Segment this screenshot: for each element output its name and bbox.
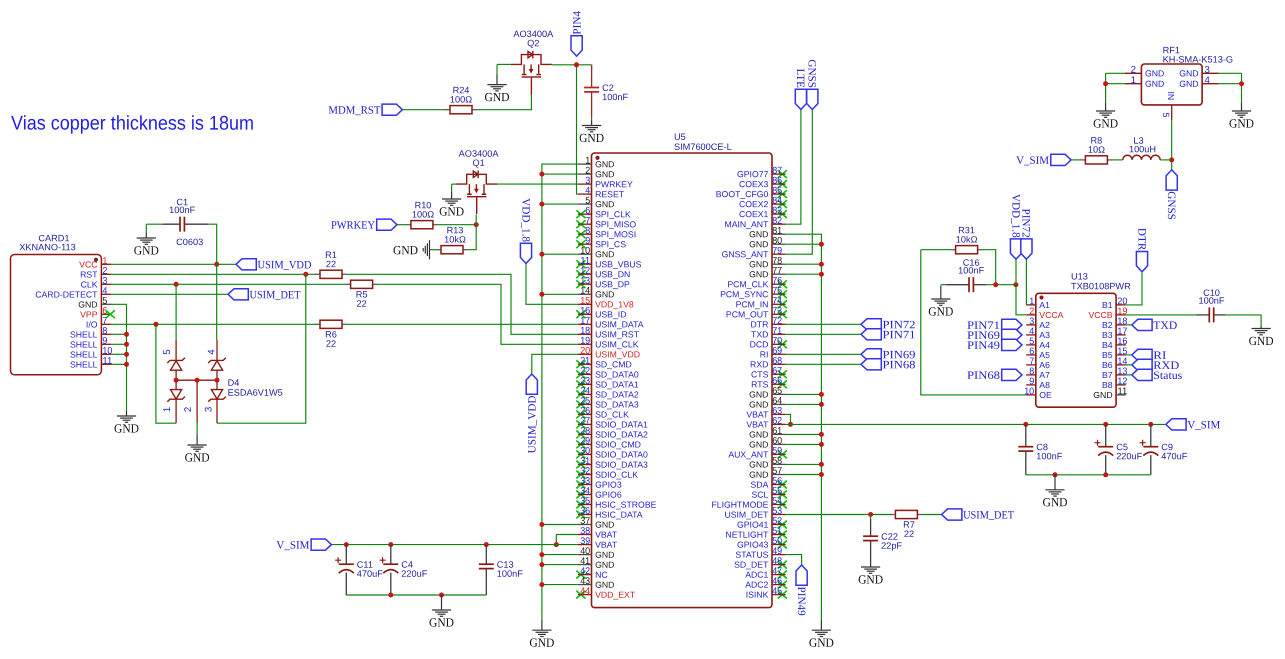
U5 pin 25 SD_DATA3 — [578, 396, 639, 410]
wire U5 pin68 RXD to PIN68 — [786, 363, 861, 365]
wire U5 pin72 DTR to PIN72 — [786, 323, 861, 325]
U5 pin 9 SPI_CS — [578, 236, 626, 250]
U5 pin 73 PCM_OUT — [726, 306, 786, 320]
U5 pin 39 VBAT — [578, 536, 618, 550]
svg-text:GND: GND — [749, 470, 768, 480]
junction right GND rail pin64 — [819, 402, 824, 407]
U13 pin 18 B2 — [1102, 316, 1127, 330]
svg-text:SCL: SCL — [751, 490, 768, 500]
svg-text:A8: A8 — [1039, 380, 1050, 390]
junction right GND rail pin65 — [819, 392, 824, 397]
resistor R13 10kohm — [436, 225, 468, 254]
svg-text:100Ω: 100Ω — [412, 209, 434, 219]
net label USIM_DET right — [942, 509, 1015, 522]
wire MDM_RST to R24 — [402, 109, 446, 111]
wire U5 pin69 RI to PIN69 — [786, 353, 861, 355]
junction GNSS / L3 — [1169, 157, 1174, 162]
svg-text:U5: U5 — [674, 132, 686, 142]
U5 pin 14 GND — [578, 286, 615, 300]
capacitor C8 100nF — [1018, 424, 1062, 474]
U13 pin 1 A1 — [1026, 296, 1050, 310]
junction D4 anode bus — [174, 378, 179, 383]
net label RI — [1132, 349, 1167, 362]
svg-text:GND: GND — [134, 243, 159, 257]
svg-text:GND: GND — [1145, 68, 1164, 78]
no-connect U5 pin 55 — [778, 491, 787, 499]
wire C1 right to VCC rail down to D4 pin4 — [208, 224, 217, 340]
U5 pin 68 RXD — [750, 356, 786, 370]
junction VBAT pins 38/39 — [554, 542, 559, 547]
wire PWRKEY to R10 — [397, 224, 406, 226]
net label PIN69 — [861, 349, 916, 362]
svg-text:GND: GND — [749, 389, 768, 399]
wire U5 pin82 MAIN_ANT to LTE label — [786, 110, 801, 225]
junction V_SIM at C4 — [388, 542, 393, 547]
junction GND rail pin2 — [539, 172, 544, 177]
U5 pin 41 GND — [578, 556, 615, 570]
net label USIM_VDD (U5) — [526, 374, 538, 453]
wire R7 to USIM_DET label — [922, 514, 942, 516]
no-connect U5 pin 84 — [778, 200, 787, 208]
ground at C16 — [931, 285, 950, 305]
svg-text:PIN72: PIN72 — [1020, 208, 1032, 237]
RF1 pin 1 GND — [1125, 75, 1165, 89]
svg-text:PWRKEY: PWRKEY — [595, 179, 633, 189]
wire cap bottom rail — [346, 594, 486, 596]
svg-text:45: 45 — [772, 586, 782, 597]
junction V_SIM at C11 — [344, 542, 349, 547]
capacitor C2 100nF — [584, 65, 628, 117]
wire I/O clamp via D4 pin1 — [156, 324, 176, 423]
ground U5 left rail — [532, 620, 551, 637]
wire B6 to RXD — [1126, 364, 1132, 366]
no-connect U5 pin 42 — [576, 571, 585, 579]
wire RF1 IN down to GNSS node — [1171, 120, 1173, 170]
svg-text:GND: GND — [484, 90, 509, 104]
wire down to C22 — [870, 515, 872, 520]
U5 pin 34 GPIO6 — [578, 486, 622, 500]
svg-text:PIN68: PIN68 — [967, 370, 1000, 382]
U5 pin 63 VBAT — [746, 406, 785, 420]
junction GND rail pin10 — [539, 252, 544, 257]
U5 pin 40 GND — [578, 546, 615, 560]
no-connect U5 pin 75 — [778, 290, 787, 298]
U5 pin 3 PWRKEY — [578, 175, 633, 189]
svg-text:B7: B7 — [1102, 370, 1113, 380]
svg-text:10: 10 — [1024, 386, 1035, 397]
svg-text:GND: GND — [749, 399, 768, 409]
svg-text:MDM_RST: MDM_RST — [328, 105, 380, 117]
wire U5 pin77 GND — [786, 273, 822, 275]
wire Q1 drain to U5 pin3 PWRKEY — [496, 183, 578, 185]
svg-text:SDA: SDA — [751, 480, 769, 490]
U5 pin 43 GND — [578, 576, 615, 590]
U5 pin 1 GND — [578, 155, 615, 169]
U5 pin 51 NETLIGHT — [725, 526, 785, 540]
svg-text:GND: GND — [1179, 79, 1198, 89]
junction V_SIM at C13 — [484, 542, 489, 547]
ground at C4/C13 — [432, 595, 451, 616]
svg-text:USB_DN: USB_DN — [595, 269, 630, 279]
svg-text:PIN4: PIN4 — [571, 11, 583, 35]
svg-text:GND: GND — [595, 580, 614, 590]
svg-text:GPIO6: GPIO6 — [595, 490, 622, 500]
net label PIN4 — [571, 11, 583, 57]
junction RST / D4 leg — [303, 272, 308, 277]
U5 pin 82 MAIN_ANT — [724, 216, 785, 230]
RF1 pin 4 GND — [1179, 75, 1219, 89]
ground at R13 (rotated) — [423, 240, 429, 259]
svg-text:A4: A4 — [1039, 340, 1050, 350]
svg-text:4: 4 — [1204, 75, 1210, 86]
no-connect — [106, 310, 115, 318]
no-connect U5 pin 28 — [576, 431, 585, 439]
junction VBAT pins 62/63 — [788, 422, 793, 427]
svg-text:5: 5 — [162, 349, 173, 354]
U5 pin 38 VBAT — [578, 526, 618, 540]
wire B5 to RI — [1126, 354, 1132, 356]
U5 pin 8 SPI_MOSI — [578, 226, 636, 240]
ground at C10 — [1252, 326, 1271, 335]
svg-text:10kΩ: 10kΩ — [956, 234, 978, 244]
U13 pin 5 A4 — [1026, 336, 1050, 350]
U5 pin 49 STATUS — [735, 546, 785, 560]
svg-text:SDIO_CLK: SDIO_CLK — [595, 470, 638, 480]
junction CLK / D4 leg — [174, 282, 179, 287]
wire R31 left — [921, 249, 951, 251]
U5 pin 16 USB_ID — [578, 306, 627, 320]
wire U5 pin80 GND — [786, 243, 822, 245]
svg-text:DTR: DTR — [751, 319, 769, 329]
U5 pin 57 GND — [749, 466, 786, 480]
U5 pin 44 VDD_EXT — [578, 586, 636, 600]
svg-text:GND: GND — [595, 289, 614, 299]
junction VCC / C1 / D4 — [214, 262, 219, 267]
svg-text:A5: A5 — [1039, 350, 1050, 360]
U5 pin 4 RESET — [578, 185, 625, 199]
svg-text:GND: GND — [114, 421, 139, 435]
U5 pin 66 RTS — [751, 376, 785, 390]
svg-text:A1: A1 — [1039, 300, 1050, 310]
U5 pin 81 GND — [749, 226, 786, 240]
wire U5 pin63 VBAT down — [786, 414, 791, 424]
svg-text:A7: A7 — [1039, 370, 1050, 380]
svg-text:CLK: CLK — [81, 279, 98, 289]
svg-text:GND: GND — [1145, 79, 1164, 89]
svg-text:PCM_CLK: PCM_CLK — [727, 279, 768, 289]
no-connect U5 pin 48 — [778, 561, 787, 569]
wire PIN4 net down to U5 pin4 RESET — [577, 65, 578, 194]
no-connect U5 pin 31 — [576, 461, 585, 469]
svg-text:NC: NC — [595, 570, 608, 580]
svg-text:USIM_VDD: USIM_VDD — [595, 349, 640, 359]
CARD1 pin1 marker — [94, 258, 98, 262]
wire L3 to GNSS node — [1160, 159, 1172, 161]
U5 pin 84 COEX2 — [739, 196, 786, 210]
svg-text:GND: GND — [439, 204, 464, 218]
U5 pin 50 GPIO43 — [737, 536, 786, 550]
U13 pin 19 VCCB — [1088, 306, 1127, 320]
wire U5 pin71 TXD to PIN71 — [786, 333, 861, 335]
resistor R24 100ohm — [445, 85, 477, 114]
wire U5 pin57 GND — [786, 474, 822, 476]
U5 pin 76 PCM_CLK — [727, 276, 785, 290]
wire Q2 source — [497, 63, 511, 65]
svg-text:GND: GND — [1229, 116, 1254, 130]
svg-text:SD_DATA1: SD_DATA1 — [595, 380, 639, 390]
wire B2 to TXD — [1126, 324, 1132, 326]
wire U5 pin64 GND — [786, 403, 822, 405]
U5 pin 64 GND — [749, 396, 786, 410]
svg-text:VDD_1.8: VDD_1.8 — [1009, 194, 1021, 238]
U5 pin 19 USIM_CLK — [578, 336, 639, 350]
wire U5 pin58 GND — [786, 463, 822, 465]
svg-text:22: 22 — [904, 529, 914, 539]
junction cap rail gnd tap right — [1053, 472, 1058, 477]
net label PIN68 U13 — [967, 369, 1022, 382]
wire RST clamp via D4 pin3 — [217, 274, 306, 423]
svg-text:V_SIM: V_SIM — [1016, 155, 1049, 167]
no-connect U5 pin 36 — [576, 511, 585, 519]
U5 pin 26 SD_CLK — [578, 406, 629, 420]
svg-text:Q1: Q1 — [472, 158, 484, 168]
svg-text:D4: D4 — [228, 378, 240, 388]
wire VBAT pin38 down — [555, 535, 557, 545]
U13 pin 12 B8 — [1102, 376, 1127, 390]
svg-text:VBAT: VBAT — [595, 530, 618, 540]
wire SHELL pin 11 — [111, 363, 126, 365]
wire Q2 source to ground — [496, 64, 498, 74]
wire DTR to U13 B1 — [1126, 272, 1142, 305]
svg-text:B1: B1 — [1102, 300, 1113, 310]
wire RF1 pin4 — [1219, 83, 1242, 85]
U13 pin 8 A7 — [1026, 366, 1050, 380]
svg-text:GND: GND — [749, 439, 768, 449]
svg-text:GPIO77: GPIO77 — [737, 169, 769, 179]
svg-text:10Ω: 10Ω — [1088, 145, 1105, 155]
svg-text:SD_DATA3: SD_DATA3 — [595, 400, 639, 410]
junction V_SIM at C5 — [1103, 422, 1108, 427]
U5 pin 7 SPI_MISO — [578, 216, 636, 230]
svg-text:ESDA6V1W5: ESDA6V1W5 — [228, 388, 283, 398]
wire C1 left — [146, 223, 163, 225]
no-connect U5 pin 85 — [778, 190, 787, 198]
svg-text:USIM_DATA: USIM_DATA — [595, 319, 644, 329]
svg-text:ISINK: ISINK — [746, 590, 769, 600]
svg-text:GND: GND — [1042, 495, 1067, 509]
no-connect U5 pin 66 — [778, 380, 787, 388]
svg-text:VDD_1V8: VDD_1V8 — [595, 299, 634, 309]
U13 pin 15 B5 — [1102, 346, 1127, 360]
junction D4 pin2 — [195, 378, 200, 383]
U13 pin 6 A5 — [1026, 346, 1050, 360]
svg-text:GND: GND — [595, 550, 614, 560]
junction GND rail pin43 — [539, 582, 544, 587]
U13 pin 20 B1 — [1102, 296, 1128, 310]
CARD1 pin 6 VPP — [80, 306, 111, 320]
ground RF1 left — [1096, 103, 1115, 117]
U5 pin 5 GND — [578, 195, 615, 209]
svg-text:OE: OE — [1039, 390, 1052, 400]
no-connect U5 pin 56 — [778, 481, 787, 489]
junction R31/C16 — [993, 282, 998, 287]
U5 pin 30 SDIO_DATA0 — [578, 446, 648, 460]
U5 pin 18 USIM_RST — [578, 326, 640, 340]
svg-text:100nF: 100nF — [497, 569, 523, 579]
svg-text:SDIO_DATA2: SDIO_DATA2 — [595, 430, 648, 440]
svg-text:GND: GND — [749, 259, 768, 269]
RF1 pin 3 GND — [1179, 65, 1219, 79]
wire R8 to L3 — [1112, 159, 1122, 161]
ground at Q1 source — [442, 192, 461, 205]
wire USIM_VDD label to U5 pin20 — [532, 354, 578, 374]
svg-text:GPIO3: GPIO3 — [595, 480, 622, 490]
U13 pin 4 A3 — [1026, 326, 1050, 340]
wire R31 to U13 OE loop — [921, 250, 1026, 395]
no-connect U5 pin 9 — [576, 240, 585, 248]
svg-text:GND: GND — [529, 636, 554, 650]
capacitor C13 100nF — [479, 545, 523, 595]
svg-text:SDIO_DATA1: SDIO_DATA1 — [595, 420, 648, 430]
CARD1 pin 9 SHELL — [70, 336, 111, 350]
U5 pin 37 GND — [578, 516, 615, 530]
svg-text:GND: GND — [1093, 390, 1112, 400]
wire gate node down to R13 — [468, 215, 476, 250]
ground at C22 — [861, 563, 880, 573]
wire RST card pin2 to R1 — [111, 273, 315, 275]
net label VDD_1.8 U13 — [1009, 194, 1021, 259]
no-connect U5 pin 50 — [778, 541, 787, 549]
no-connect U5 pin 54 — [778, 501, 787, 509]
wire VDD_1.8 to U5 pin15 — [526, 264, 578, 305]
U5 pin 28 SDIO_DATA2 — [578, 426, 648, 440]
svg-text:VBAT: VBAT — [746, 409, 769, 419]
no-connect U5 pin 46 — [778, 581, 787, 589]
svg-text:A6: A6 — [1039, 360, 1050, 370]
svg-text:SD_CMD: SD_CMD — [595, 359, 632, 369]
svg-text:Q2: Q2 — [527, 38, 539, 48]
wire RF1 left gnd drop — [1105, 73, 1107, 103]
junction SHELL pin 8 — [124, 332, 129, 337]
svg-text:ADC1: ADC1 — [745, 570, 768, 580]
svg-text:B5: B5 — [1102, 350, 1113, 360]
CARD1 pin 11 SHELL — [70, 356, 112, 370]
no-connect U5 pin 73 — [778, 310, 787, 318]
svg-text:470uF: 470uF — [357, 569, 383, 579]
U5 pin 36 HSIC_DATA — [578, 506, 643, 520]
junction right GND rail pin61 — [819, 432, 824, 437]
svg-text:100nF: 100nF — [958, 265, 984, 275]
no-connect U5 pin 51 — [778, 531, 787, 539]
ground at Q2 source — [487, 75, 506, 91]
svg-text:NETLIGHT: NETLIGHT — [725, 530, 769, 540]
svg-text:STATUS: STATUS — [735, 550, 768, 560]
no-connect U5 pin 34 — [576, 491, 585, 499]
U5 pin 15 VDD_1V8 — [578, 296, 634, 310]
U5 pin 2 GND — [578, 165, 615, 179]
junction D4 anode bus — [215, 378, 220, 383]
wire SHELL pin 10 — [111, 353, 126, 355]
net label PIN71 — [861, 329, 916, 342]
svg-text:TXD: TXD — [751, 329, 768, 339]
junction right GND rail pin77 — [819, 272, 824, 277]
capacitor C5 220uF — [1095, 424, 1143, 474]
U5 pin 53 USIM_DET — [724, 506, 785, 520]
svg-text:ADC2: ADC2 — [745, 580, 768, 590]
no-connect U5 pin 83 — [778, 210, 787, 218]
svg-text:44: 44 — [580, 586, 591, 597]
svg-text:1: 1 — [1131, 75, 1136, 86]
U5 pin 31 SDIO_DATA3 — [578, 456, 648, 470]
wire SHELL pin 8 — [111, 333, 126, 335]
svg-text:GND: GND — [595, 199, 614, 209]
junction I/O / D4 leg — [153, 322, 158, 327]
svg-text:CTS: CTS — [751, 369, 769, 379]
U5 pin 10 GND — [578, 246, 615, 260]
U13 pin 10 OE — [1024, 386, 1052, 400]
no-connect U5 pin 12 — [576, 270, 585, 278]
no-connect U5 pin 30 — [576, 451, 585, 459]
wire right cap bottom rail — [1026, 474, 1151, 476]
CARD1 pin 10 SHELL — [70, 346, 113, 360]
wire VCCB to C10 — [1126, 314, 1197, 316]
U5 pin 45 ISINK — [746, 586, 786, 600]
net label USIM_DET — [228, 289, 301, 302]
net label V_SIM RF1 — [1016, 154, 1071, 167]
U5 pin 17 USIM_DATA — [578, 316, 644, 330]
CARD1 pin 1 VCC — [79, 256, 111, 270]
connector CARD1 XKNANO-113 body — [11, 255, 102, 375]
no-connect U5 pin 87 — [778, 170, 787, 178]
U13 pin 14 B6 — [1102, 356, 1128, 370]
svg-text:GND: GND — [78, 299, 97, 309]
svg-text:PCM_OUT: PCM_OUT — [726, 309, 769, 319]
junction GND rail pin37 — [539, 522, 544, 527]
capacitor C4 220uF — [380, 545, 428, 595]
svg-text:GND: GND — [1249, 334, 1274, 348]
wire VDD_1.8 to U13 VCCA — [1016, 259, 1026, 315]
junction cap rail C5 — [1103, 472, 1108, 477]
no-connect U5 pin 32 — [576, 471, 585, 479]
svg-text:GNSS: GNSS — [806, 59, 818, 88]
wire U5 pin5 GND — [542, 203, 578, 205]
resistor R1 22 — [315, 250, 347, 279]
junction GND rail pin5 — [539, 202, 544, 207]
wire R24 out to Q2 gate — [477, 94, 531, 110]
svg-text:SD_CLK: SD_CLK — [595, 410, 629, 420]
wire Q1 source — [452, 183, 457, 185]
svg-text:RXD: RXD — [750, 359, 768, 369]
no-connect U5 pin 7 — [576, 220, 585, 228]
svg-text:PWRKEY: PWRKEY — [331, 220, 375, 232]
svg-text:VDD_1.8: VDD_1.8 — [519, 198, 531, 242]
U5 pin 20 USIM_VDD — [578, 346, 640, 360]
no-connect U5 pin 74 — [778, 300, 787, 308]
svg-text:USIM_RST: USIM_RST — [595, 329, 640, 339]
wire CLK card pin3 to R5 — [111, 283, 345, 285]
wire U5 pin43 GND — [542, 584, 578, 586]
junction GND rail pin14 — [539, 292, 544, 297]
U13 pin 11 GND — [1093, 386, 1127, 400]
wire RF1 pin1 — [1106, 83, 1125, 85]
svg-text:VCCB: VCCB — [1088, 310, 1112, 320]
junction right GND rail pin60 — [819, 442, 824, 447]
svg-text:SHELL: SHELL — [70, 349, 98, 359]
wire U5 left GND rail — [542, 164, 578, 620]
wire VBAT to V_SIM label right — [786, 423, 1166, 425]
svg-text:I/O: I/O — [86, 319, 98, 329]
svg-text:USIM_CLK: USIM_CLK — [595, 339, 639, 349]
